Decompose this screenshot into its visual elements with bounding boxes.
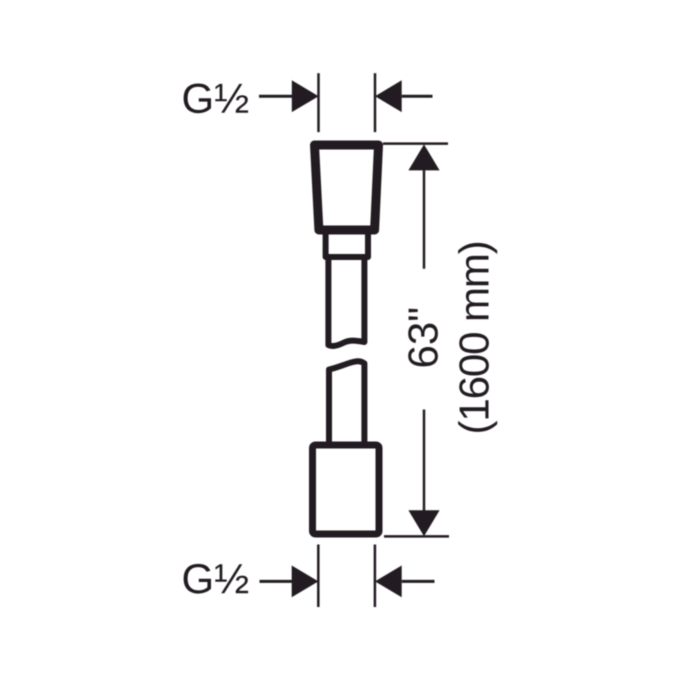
top extension line left [317,73,320,132]
label G1/2 top [184,84,249,114]
label 63 inch [408,309,438,367]
top dimension leader line left [259,95,294,98]
top dimension arrow left [292,80,319,112]
hose bottom cylindrical nut [313,445,380,534]
vertical dimension line upper segment [423,169,426,269]
vertical dimension arrow down [408,510,439,536]
bottom dimension arrow left [292,566,319,598]
label G1/2 bottom [184,564,249,594]
label 1600 mm [458,243,497,432]
hose upper tube with break edge [328,257,364,346]
hose top conical nut [315,145,379,230]
top extension line right [374,73,377,132]
top dimension leader line right [402,95,433,98]
bottom dimension leader line right [402,580,435,583]
right reference line top [383,142,448,145]
right reference line bottom [384,535,449,538]
bottom extension line right [374,545,377,608]
vertical dimension line lower segment [423,410,426,513]
vertical dimension arrow up [408,144,439,170]
bottom dimension arrow right [375,566,402,598]
bottom dimension leader line left [260,580,294,583]
top dimension arrow right [375,80,402,112]
hose top collar [326,234,368,257]
bottom extension line left [317,545,320,608]
hose lower tube with break edge [329,361,364,444]
